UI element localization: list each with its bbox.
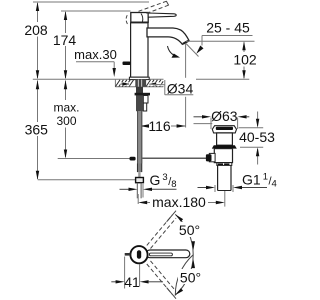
dimension 365: [25, 80, 49, 179]
drain: basin line left: [194, 123, 213, 125]
drain flange: [212, 126, 236, 133]
raised lever (dashed): [126, 1, 169, 25]
faucet head (cartridge housing): [131, 13, 149, 23]
drain neck: [217, 133, 233, 145]
level line 365 (hose end level): [38, 179, 136, 181]
flow curved arrow: [168, 46, 181, 58]
deck cross-section hatch: [115, 80, 163, 87]
level line max.300 (pop-up rod level): [58, 158, 130, 160]
label Ø34: [149, 78, 196, 97]
svg-text:Ø34: Ø34: [167, 81, 194, 97]
svg-text:208: 208: [24, 22, 48, 38]
svg-text:174: 174: [53, 32, 77, 48]
label 50 deg lower: [178, 269, 203, 286]
faucet body: [131, 23, 148, 77]
drain locknut: [212, 145, 237, 148]
top view: dashed lever down 50deg: [147, 261, 176, 299]
svg-text:max.: max.: [53, 101, 79, 115]
dimension 174: [53, 11, 77, 79]
svg-text:116: 116: [148, 118, 171, 134]
dimension 208: [24, 2, 48, 79]
svg-text:max.180: max.180: [152, 194, 206, 210]
top view: dashed lever up 50deg: [147, 211, 176, 249]
svg-text:300: 300: [56, 114, 76, 128]
svg-text:40-53: 40-53: [239, 129, 275, 145]
top view: 50-degree arc: [175, 214, 193, 295]
drain body: [214, 149, 232, 163]
deck line: [33, 78, 250, 80]
water stream line: [186, 44, 199, 57]
svg-text:41: 41: [124, 274, 140, 290]
extension line top (208 level): [33, 1, 149, 3]
threaded shank and mounting below deck: [135, 80, 150, 164]
flexible hose fitting: [136, 164, 144, 199]
dimension Ø63: [194, 108, 250, 129]
rod knob (front view, on body): [123, 62, 131, 66]
rod connector on drain: [206, 153, 215, 161]
dimension max.300: [53, 80, 79, 158]
top view: lever: [146, 250, 190, 258]
dimension 40-53: [239, 112, 276, 165]
svg-text:max.30: max.30: [74, 47, 117, 62]
top view: faucet circle: [125, 246, 148, 263]
drain bottom rim: [217, 163, 232, 166]
lever handle (horizontal): [148, 13, 176, 17]
dimension max.180: [138, 191, 225, 210]
base escutcheon plate: [129, 77, 149, 79]
drain tailpipe: [218, 165, 231, 190]
label 25 - 45 with leader: [196, 20, 252, 54]
spout: [147, 28, 189, 44]
dimension 116: [140, 44, 186, 134]
svg-text:102: 102: [233, 52, 257, 68]
label G1 1/4 with arrows: [198, 171, 277, 192]
label G3/8 with arrows: [120, 172, 177, 198]
svg-text:50°: 50°: [180, 270, 201, 286]
svg-text:365: 365: [25, 122, 49, 138]
label 50 deg upper: [177, 222, 202, 238]
pop-up rod (horizontal): [130, 157, 209, 161]
svg-text:50°: 50°: [179, 222, 200, 238]
top view: arc arrowheads: [175, 214, 195, 295]
aerator reference line: [186, 40, 255, 42]
dimension 102: [233, 41, 257, 79]
dimension arrows Ø34 at flange: [121, 82, 162, 85]
label max.30 with leader arrow: [74, 47, 117, 77]
svg-text:25 - 45: 25 - 45: [206, 20, 250, 36]
dimension 41: [111, 257, 163, 291]
extension line 174 level: [61, 10, 131, 12]
svg-text:Ø63: Ø63: [211, 108, 238, 124]
